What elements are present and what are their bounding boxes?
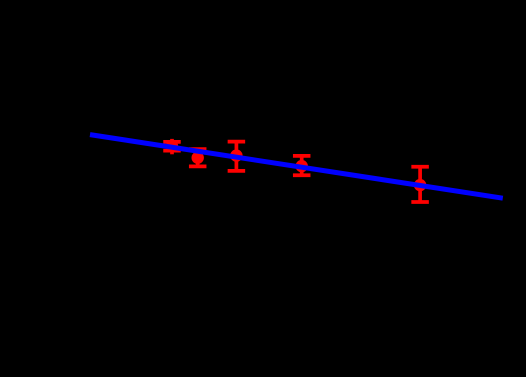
data point 2 error bar [189,149,207,166]
data point 3 marker [230,149,242,161]
data point 1 marker [166,140,178,152]
fit line [90,135,503,199]
data point 3 error bar [228,142,246,171]
data point 4 marker [296,160,308,172]
data point 1 error bar [163,139,181,154]
data point 5 error bar [411,167,429,202]
data point 4 error bar [293,156,311,175]
data point 5 marker [414,179,426,191]
data point 2 marker [192,152,204,164]
